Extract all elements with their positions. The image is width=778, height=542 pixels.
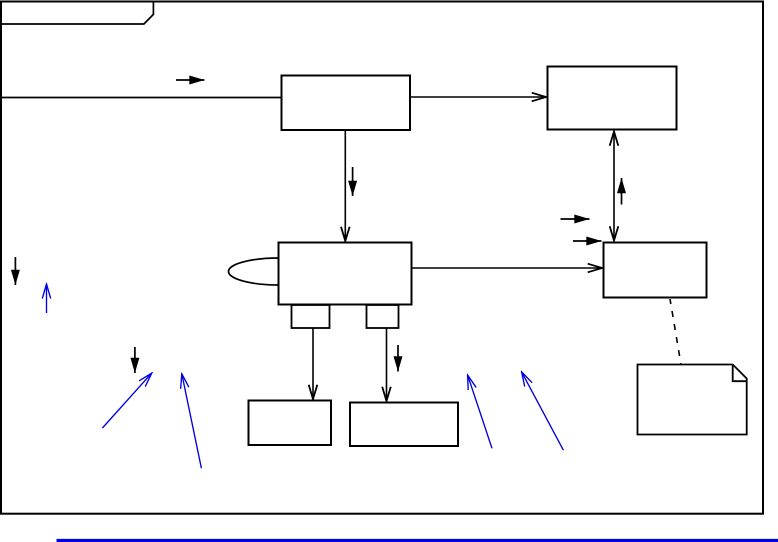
box B3 middle <box>279 243 412 305</box>
blue arrow G2 <box>102 373 151 428</box>
wire B1 to B2 <box>410 96 546 98</box>
wire T2 to B6 <box>386 328 388 401</box>
box B2 top right <box>548 67 677 130</box>
box B5 bottom left <box>249 401 332 446</box>
arrow annotation right A1 <box>176 79 205 81</box>
blue arrow G5 <box>522 372 564 450</box>
blue arrow G3 <box>182 374 202 469</box>
wire B2 to B4 double arrow <box>613 132 615 241</box>
tab box T2 <box>367 305 399 328</box>
self loop ellipse <box>229 258 329 285</box>
wire T1 to B5 <box>312 328 314 399</box>
blue rule bottom <box>57 539 778 542</box>
arrow annotation down A7 <box>14 257 16 285</box>
blue arrow G4 <box>468 375 492 448</box>
arrow annotation right A5 <box>573 240 602 242</box>
wire input line <box>0 97 281 99</box>
document icon <box>638 365 747 435</box>
arrow annotation down A8 <box>134 347 136 373</box>
box B4 right middle <box>604 243 707 298</box>
box B1 top middle <box>282 76 411 131</box>
arrow annotation down A2 <box>352 167 354 196</box>
wire B1 to B3 <box>344 130 346 241</box>
title tab <box>0 2 153 25</box>
wire dashed B4 to document <box>670 299 681 365</box>
tab box T1 <box>292 305 330 328</box>
arrow annotation up A3 <box>621 178 623 205</box>
arrow annotation down A6 <box>397 345 399 372</box>
arrow annotation right A4 <box>561 218 590 220</box>
wire B3 to B4 <box>412 267 602 269</box>
blue arrow up G1 <box>46 284 48 313</box>
box B6 bottom right <box>350 403 458 447</box>
